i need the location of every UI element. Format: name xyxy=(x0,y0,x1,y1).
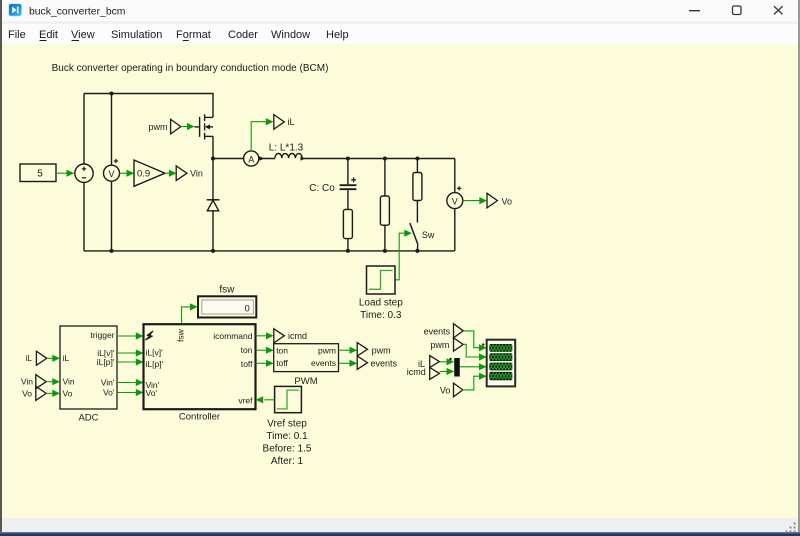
resistor R1 (ESR) xyxy=(343,209,352,238)
wire: mux to scope xyxy=(460,366,481,368)
svg-text:File: File xyxy=(8,29,26,41)
svg-text:Vo: Vo xyxy=(63,388,73,398)
svg-text:After: 1: After: 1 xyxy=(271,456,304,467)
ammeter A xyxy=(244,151,259,166)
wire: inductor to right corner xyxy=(302,158,455,160)
output port Vin xyxy=(176,166,187,181)
wire: resistor R2 branch xyxy=(384,159,386,197)
output port iL xyxy=(274,115,285,130)
vref step block xyxy=(275,386,302,412)
ADC block xyxy=(60,326,117,409)
output port Vo xyxy=(487,193,497,208)
svg-text:Vo: Vo xyxy=(22,388,32,398)
svg-text:Help: Help xyxy=(326,29,349,41)
wire: top rail xyxy=(84,94,213,118)
svg-text:C: Co: C: Co xyxy=(309,183,335,194)
svg-text:Simulation: Simulation xyxy=(111,29,162,41)
svg-text:iL[p]': iL[p]' xyxy=(146,359,164,369)
wire: controller fsw to display xyxy=(182,307,191,324)
wire: capacitor branch top xyxy=(347,159,349,185)
junction dots xyxy=(110,92,420,253)
wire: node to ammeter xyxy=(213,158,244,160)
svg-text:pwm: pwm xyxy=(318,345,336,355)
svg-text:Vo: Vo xyxy=(502,196,513,206)
svg-text:L: L*1.3: L: L*1.3 xyxy=(269,142,304,153)
maximize button xyxy=(733,6,742,15)
constant block value 5 xyxy=(20,164,56,182)
svg-text:toff: toff xyxy=(241,359,253,369)
svg-text:Vo': Vo' xyxy=(103,387,115,397)
svg-text:View: View xyxy=(71,29,95,41)
menu bar xyxy=(0,24,800,44)
svg-text:events: events xyxy=(311,358,336,368)
wire: events to scope xyxy=(463,331,480,348)
voltmeter Vm1 xyxy=(104,165,120,181)
scope block xyxy=(487,340,516,387)
svg-text:A: A xyxy=(248,154,254,164)
wires: scope inputs xyxy=(440,331,481,390)
green signal wires xyxy=(56,122,267,174)
svg-text:Format: Format xyxy=(176,29,211,41)
svg-text:Load step: Load step xyxy=(359,297,403,308)
switch Sw xyxy=(410,223,418,244)
svg-text:PWM: PWM xyxy=(294,376,317,387)
mosfet Q xyxy=(195,114,214,139)
svg-text:0.9: 0.9 xyxy=(137,169,150,180)
svg-text:vref: vref xyxy=(238,395,253,405)
svg-text:Time: 0.1: Time: 0.1 xyxy=(266,431,308,442)
svg-text:Vin: Vin xyxy=(21,377,33,387)
wires: ADC inputs xyxy=(46,358,54,393)
svg-text:iL: iL xyxy=(288,117,295,127)
svg-text:buck_converter_bcm: buck_converter_bcm xyxy=(29,6,125,17)
svg-text:5: 5 xyxy=(37,169,43,180)
close button xyxy=(774,6,783,14)
svg-text:ton: ton xyxy=(241,345,253,355)
svg-text:toff: toff xyxy=(276,358,288,368)
wire: mosfet source to node xyxy=(212,136,214,158)
svg-text:iL[v]': iL[v]' xyxy=(146,348,164,358)
green arrowheads xyxy=(67,118,488,237)
wire: load step to switch xyxy=(395,233,406,280)
controller block xyxy=(144,324,256,409)
svg-text:Controller: Controller xyxy=(179,411,220,422)
svg-text:0: 0 xyxy=(245,304,250,315)
svg-text:events: events xyxy=(371,358,398,368)
svg-text:Vo': Vo' xyxy=(146,388,158,398)
wire: voltmeter to gain xyxy=(120,172,129,174)
resize grip xyxy=(786,523,796,533)
output port pwm xyxy=(357,343,367,356)
controlled voltage source V xyxy=(75,164,93,182)
svg-text:Buck converter operating in bo: Buck converter operating in boundary con… xyxy=(52,63,329,74)
wire: capacitor to resistor R1 xyxy=(347,190,349,209)
node dot near scope xyxy=(482,343,484,345)
svg-text:Before: 1.5: Before: 1.5 xyxy=(263,443,312,454)
wire: right voltmeter branch xyxy=(454,159,456,193)
svg-text:Coder: Coder xyxy=(228,29,258,41)
inductor L xyxy=(275,154,302,159)
svg-text:Vref step: Vref step xyxy=(267,418,307,429)
svg-text:Vo: Vo xyxy=(440,386,451,396)
svg-text:icmd: icmd xyxy=(288,331,307,341)
output port events xyxy=(357,356,367,369)
wire: gain to Vin port xyxy=(165,172,171,174)
wire: Vo to scope xyxy=(462,376,480,390)
svg-text:V: V xyxy=(452,196,458,206)
svg-text:fsw: fsw xyxy=(219,285,235,296)
svg-text:ton: ton xyxy=(276,345,288,355)
svg-text:fsw: fsw xyxy=(176,328,186,342)
gain block 0.9 xyxy=(134,160,165,186)
svg-text:icmd: icmd xyxy=(407,367,426,377)
diode D xyxy=(207,199,220,201)
PWM block xyxy=(274,344,339,372)
svg-text:iL[p]': iL[p]' xyxy=(97,357,115,367)
resistor R2 xyxy=(380,196,389,225)
output port icmd xyxy=(274,329,285,343)
wire: icmd to mux xyxy=(440,371,448,373)
wire: resistor R3 branch xyxy=(416,159,418,173)
svg-text:iL: iL xyxy=(25,353,32,363)
wires: PWM outputs xyxy=(339,350,351,363)
wire: node to diode xyxy=(212,159,214,200)
svg-text:Edit: Edit xyxy=(39,29,58,41)
svg-text:V: V xyxy=(108,169,114,179)
node dot near iL wire xyxy=(449,358,451,360)
wire: voltmeter branch xyxy=(111,94,113,166)
wire: diode to bottom rail xyxy=(212,211,214,251)
resistor R3 xyxy=(413,173,422,201)
svg-text:ADC: ADC xyxy=(78,412,98,423)
minimize button xyxy=(689,10,700,11)
wire: left source branch xyxy=(83,94,85,165)
svg-text:trigger: trigger xyxy=(90,330,114,340)
wire: iL to mux xyxy=(440,361,448,363)
wires: ADC to Controller xyxy=(117,336,137,393)
svg-text:iL: iL xyxy=(63,353,70,363)
wire: vref step to controller xyxy=(264,399,274,401)
wire: pwm port to mosfet gate xyxy=(181,126,189,128)
svg-text:Window: Window xyxy=(271,29,310,41)
svg-text:Time: 0.3: Time: 0.3 xyxy=(360,310,402,321)
svg-text:Vin: Vin xyxy=(190,168,203,178)
wire: R1 to bottom rail xyxy=(347,239,349,251)
scope screen waveforms xyxy=(490,345,512,379)
svg-text:Vin': Vin' xyxy=(101,377,115,387)
bottom window border xyxy=(0,532,800,534)
wire: ammeter to iL port xyxy=(251,122,266,151)
wire: bottom rail xyxy=(84,250,455,252)
current direction arrow xyxy=(301,156,306,160)
svg-text:pwm: pwm xyxy=(148,122,167,132)
capacitor C xyxy=(340,184,357,186)
svg-text:pwm: pwm xyxy=(372,346,391,356)
svg-text:pwm: pwm xyxy=(430,340,449,350)
status bar xyxy=(2,518,798,532)
wires: controller outputs xyxy=(256,336,268,364)
svg-text:icommand: icommand xyxy=(213,331,252,341)
multiplexer mux xyxy=(454,358,460,377)
title/menu separator shading xyxy=(0,21,800,24)
right window border xyxy=(798,0,800,533)
svg-text:Sw: Sw xyxy=(422,230,435,240)
svg-text:Vin: Vin xyxy=(63,377,75,387)
voltmeter Vm2 xyxy=(447,193,463,209)
wire: ammeter to inductor xyxy=(259,158,275,160)
wire: const to vsource xyxy=(56,172,68,174)
wire: V2 to Vo port xyxy=(463,200,481,202)
wire: switch to bottom rail xyxy=(416,245,418,251)
load step block xyxy=(367,266,396,294)
title bar xyxy=(0,0,800,22)
current direction arrow xyxy=(260,156,265,160)
svg-text:events: events xyxy=(424,327,451,337)
wire: pwm to scope xyxy=(463,344,480,357)
left window border xyxy=(0,0,2,533)
